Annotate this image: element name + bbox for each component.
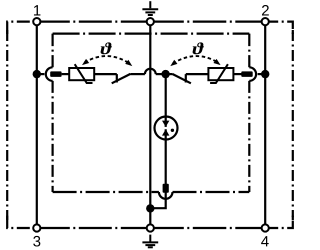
enclosure outer border top-right stub (265, 22, 293, 34)
thermal coupling arc left (85, 56, 130, 64)
enclosure outer border bottom segment 3-PE (37, 227, 151, 229)
enclosure outer border right side (292, 30, 294, 220)
wire disconnector to varistor right (186, 73, 209, 75)
wire crossover hump over PE (145, 69, 156, 74)
module inner border left lower (51, 81, 53, 192)
terminal 3 (33, 224, 40, 231)
module inner border right upper (248, 34, 250, 68)
varistor diagonal stroke left (75, 64, 93, 83)
module contact socket arc bottom (159, 192, 173, 199)
wire node A down to spark gap (165, 74, 167, 127)
terminal label 3 (33, 236, 40, 247)
wire blade to crossover left (130, 73, 145, 75)
wire spark gap down to PE junction (150, 129, 165, 208)
terminal label 4 (261, 236, 269, 246)
wire N conductor 2-4 (264, 25, 266, 224)
enclosure outer border bottom segment PE-4 (150, 227, 265, 229)
temperature symbol theta left (101, 42, 112, 54)
ground symbol bottom (142, 235, 158, 248)
varistor box right RV2 (208, 68, 233, 80)
junction node L branch (33, 70, 41, 78)
terminal label 1 (34, 5, 40, 15)
thermal coupling arrowhead right-left (170, 60, 177, 66)
enclosure outer border bottom-left stub (7, 216, 37, 228)
wire varistor right to contact (233, 73, 241, 75)
enclosure outer border left side (6, 30, 8, 220)
terminal label 2 (262, 5, 269, 15)
terminal 4 (262, 224, 269, 231)
module inner border top (53, 32, 250, 34)
spark gap electrode arrow lower (162, 129, 169, 135)
enclosure outer border top-left stub (7, 22, 37, 34)
module plug contact right (241, 71, 252, 77)
enclosure outer border top segment 1-PE (37, 21, 151, 23)
ground symbol top (142, 1, 158, 15)
thermal coupling arrowhead right-right (213, 59, 220, 65)
junction node N branch (261, 70, 269, 78)
module contact socket arc left (46, 67, 53, 81)
module inner border left upper (51, 34, 53, 68)
wire crossover to node A (156, 73, 166, 75)
enclosure outer border top segment PE-2 (150, 21, 265, 23)
wire left branch to contact (37, 73, 45, 75)
disconnector blade right (172, 74, 191, 83)
module contact socket arc right (249, 67, 256, 81)
wire PE conductor center (149, 25, 151, 224)
thermal coupling arrowhead left-left (82, 59, 89, 65)
disconnector fixed contact tick right (185, 74, 187, 82)
varistor diagonal stroke right (210, 64, 228, 83)
junction node PE bottom (146, 204, 154, 212)
terminal 2 (262, 18, 269, 25)
wire L conductor 1-3 (36, 25, 38, 224)
wire right branch from node A (166, 73, 173, 75)
gas filling dot (171, 129, 174, 132)
enclosure outer border bottom-right stub (265, 216, 293, 228)
module plug contact bottom (163, 184, 169, 193)
module inner border bottom left part (53, 191, 159, 193)
spark gap electrode arrow upper (162, 121, 169, 127)
disconnector blade left (112, 74, 131, 83)
terminal PE bottom (147, 224, 154, 231)
junction node A spark gap top (161, 70, 169, 78)
disconnector fixed contact tick left (116, 74, 118, 82)
module inner border right lower (248, 81, 250, 192)
varistor box left RV1 (69, 68, 94, 80)
terminal PE top (147, 18, 154, 25)
thermal coupling arrowhead left-right (125, 60, 132, 66)
temperature symbol theta right (193, 42, 204, 54)
module inner border bottom right part (173, 191, 250, 193)
wire contact to node N (258, 73, 266, 75)
terminal 1 (33, 18, 40, 25)
gas discharge tube body F1 (155, 117, 178, 140)
thermal coupling arc right (173, 56, 218, 64)
wire contact to varistor left (62, 73, 70, 75)
module plug contact left (50, 71, 61, 77)
wire varistor left to disconnector (94, 73, 117, 75)
